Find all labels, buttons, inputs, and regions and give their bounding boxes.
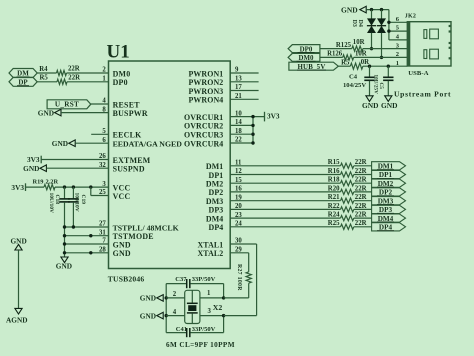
svg-text:22R: 22R xyxy=(355,168,367,175)
svg-text:10R: 10R xyxy=(355,51,367,58)
svg-text:R24: R24 xyxy=(328,212,340,219)
svg-text:22R: 22R xyxy=(355,177,367,184)
svg-text:TUSB2046: TUSB2046 xyxy=(108,275,145,284)
svg-text:X2: X2 xyxy=(213,303,223,312)
svg-text:R5: R5 xyxy=(39,75,48,82)
svg-text:R20: R20 xyxy=(328,185,340,192)
svg-text:0R: 0R xyxy=(361,59,369,66)
svg-text:XTAL1: XTAL1 xyxy=(198,240,224,249)
svg-text:22R: 22R xyxy=(355,220,367,227)
svg-text:R27 100R: R27 100R xyxy=(236,264,242,291)
svg-text:D4: D4 xyxy=(357,20,363,27)
svg-text:GND: GND xyxy=(362,101,378,110)
svg-text:PWRON2: PWRON2 xyxy=(189,78,224,87)
svg-text:SUSPND: SUSPND xyxy=(113,165,145,174)
svg-text:22R: 22R xyxy=(355,194,367,201)
svg-text:R22: R22 xyxy=(328,203,340,210)
svg-text:R15: R15 xyxy=(328,159,340,166)
svg-text:4: 4 xyxy=(173,309,177,316)
svg-text:GND: GND xyxy=(113,249,131,258)
svg-text:DM0: DM0 xyxy=(113,69,131,78)
svg-text:R125: R125 xyxy=(336,42,352,49)
svg-text:DM2: DM2 xyxy=(206,180,223,189)
svg-text:VCC: VCC xyxy=(113,192,131,201)
svg-text:EXTMEM: EXTMEM xyxy=(113,156,151,165)
svg-text:DP2: DP2 xyxy=(209,188,224,197)
svg-text:104/25V: 104/25V xyxy=(343,82,366,89)
svg-text:GND: GND xyxy=(381,101,397,110)
svg-text:22R: 22R xyxy=(355,203,367,210)
svg-text:DP1: DP1 xyxy=(209,171,224,180)
svg-text:R25: R25 xyxy=(328,220,340,227)
svg-text:GND: GND xyxy=(23,164,39,173)
svg-text:OVRCUR3: OVRCUR3 xyxy=(184,131,223,140)
svg-text:GND: GND xyxy=(140,311,156,320)
svg-text:6M CL=9PF 10PPM: 6M CL=9PF 10PPM xyxy=(166,341,235,349)
svg-text:U_RST: U_RST xyxy=(55,101,79,109)
svg-text:BUSPWR: BUSPWR xyxy=(113,109,148,118)
svg-text:DP3: DP3 xyxy=(209,206,224,215)
svg-text:GND: GND xyxy=(140,294,156,303)
svg-text:DP0: DP0 xyxy=(113,78,128,87)
svg-text:GND: GND xyxy=(56,262,72,271)
svg-text:10U/25V: 10U/25V xyxy=(372,75,378,95)
svg-text:C19: C19 xyxy=(80,195,86,205)
svg-text:10R: 10R xyxy=(353,39,365,46)
svg-text:D3: D3 xyxy=(351,20,357,27)
svg-text:R126: R126 xyxy=(327,51,343,58)
svg-text:33P/50V: 33P/50V xyxy=(192,276,216,283)
svg-text:DP4: DP4 xyxy=(209,223,224,232)
svg-text:GND: GND xyxy=(52,139,68,148)
svg-text:Upstream Port: Upstream Port xyxy=(394,89,451,98)
svg-text:22R: 22R xyxy=(68,66,80,73)
svg-text:DM1: DM1 xyxy=(206,162,223,171)
svg-text:3V3: 3V3 xyxy=(27,155,40,164)
svg-text:R16: R16 xyxy=(328,168,340,175)
svg-text:3V3: 3V3 xyxy=(267,111,280,120)
svg-text:C4: C4 xyxy=(349,74,358,81)
svg-text:C18: C18 xyxy=(54,195,60,205)
svg-text:GND: GND xyxy=(341,5,358,14)
svg-text:R21: R21 xyxy=(328,194,340,201)
svg-text:R18: R18 xyxy=(328,177,340,184)
svg-text:OVRCUR2: OVRCUR2 xyxy=(184,122,223,131)
svg-text:2.2R: 2.2R xyxy=(46,179,59,186)
svg-text:PWRON4: PWRON4 xyxy=(189,96,224,105)
svg-text:22R: 22R xyxy=(68,75,80,82)
svg-text:C41: C41 xyxy=(176,326,187,333)
svg-text:DM4: DM4 xyxy=(206,214,223,223)
svg-text:1: 1 xyxy=(207,290,211,297)
svg-text:22R: 22R xyxy=(355,185,367,192)
svg-text:OVRCUR1: OVRCUR1 xyxy=(184,113,223,122)
svg-text:R5: R5 xyxy=(341,60,350,67)
svg-text:TSTPLL/ 48MCLK: TSTPLL/ 48MCLK xyxy=(113,223,179,232)
svg-text:10U/10V: 10U/10V xyxy=(48,193,54,214)
svg-text:PWRON1: PWRON1 xyxy=(189,69,224,78)
svg-text:AGND: AGND xyxy=(6,316,28,325)
svg-text:C5: C5 xyxy=(378,83,384,90)
svg-text:100/10V: 100/10V xyxy=(74,193,80,212)
svg-text:JK2: JK2 xyxy=(405,14,416,20)
svg-text:R4: R4 xyxy=(39,66,48,73)
svg-text:3: 3 xyxy=(208,308,212,315)
svg-text:EEDATA/GA NGED: EEDATA/GA NGED xyxy=(113,140,183,149)
svg-text:33P/50V: 33P/50V xyxy=(192,326,216,333)
svg-text:USB-A: USB-A xyxy=(408,70,428,77)
svg-text:2: 2 xyxy=(173,291,177,298)
svg-text:R19: R19 xyxy=(32,179,43,186)
svg-text:22R: 22R xyxy=(355,159,367,166)
svg-text:3V3: 3V3 xyxy=(11,183,24,192)
svg-text:GND: GND xyxy=(38,108,54,117)
svg-text:GND: GND xyxy=(113,240,131,249)
svg-text:U1: U1 xyxy=(107,42,130,63)
svg-text:OVRCUR4: OVRCUR4 xyxy=(184,139,223,148)
svg-text:C37: C37 xyxy=(175,276,187,283)
svg-text:PWRON3: PWRON3 xyxy=(189,87,224,96)
svg-text:22R: 22R xyxy=(355,212,367,219)
svg-text:EECLK: EECLK xyxy=(113,131,142,140)
svg-text:XTAL2: XTAL2 xyxy=(198,249,224,258)
svg-text:DM3: DM3 xyxy=(206,197,223,206)
